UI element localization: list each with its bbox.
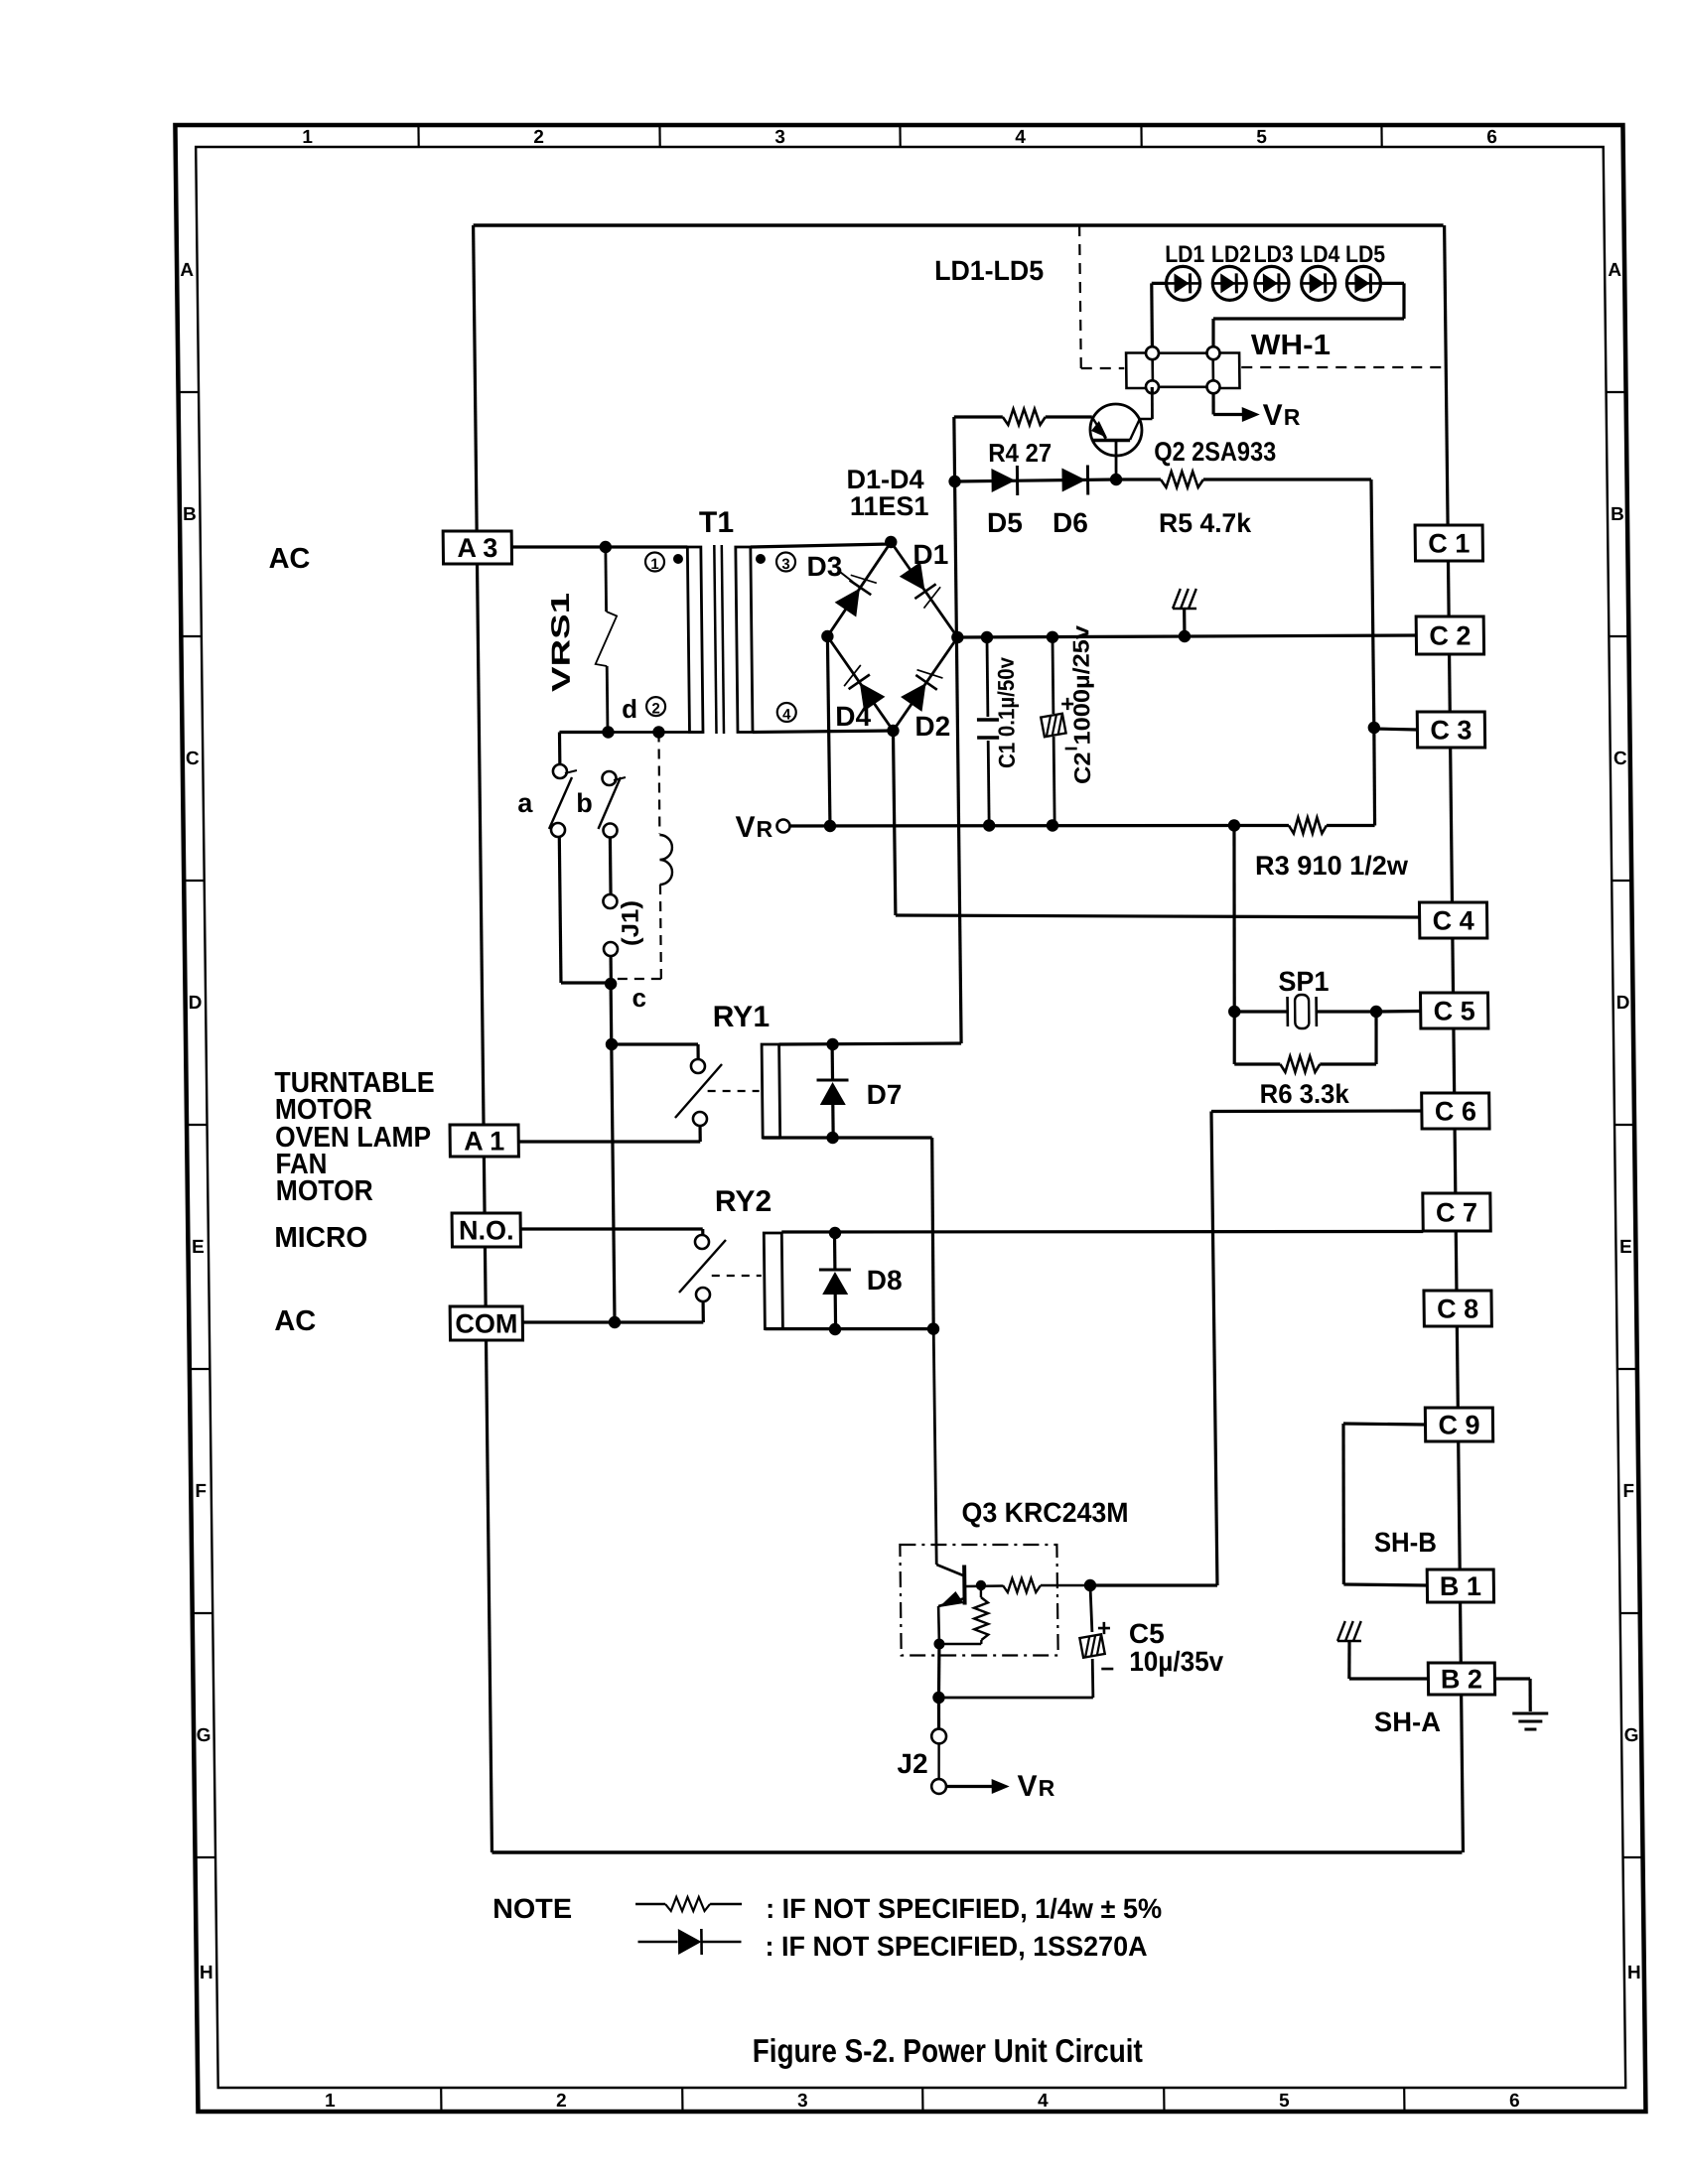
svg-text:F: F bbox=[195, 1481, 207, 1502]
note text diode bbox=[765, 1931, 1147, 1962]
label VR left bbox=[735, 811, 772, 844]
LED LD4 bbox=[1301, 266, 1334, 300]
relay RY1 coil bbox=[762, 1044, 780, 1138]
svg-text:+: + bbox=[1097, 1615, 1111, 1642]
label C5 bbox=[1129, 1618, 1165, 1649]
label AC lower bbox=[274, 1305, 316, 1337]
wire RY2 coil top to C7 bbox=[781, 1230, 1423, 1234]
terminal C5 bbox=[1421, 993, 1488, 1028]
svg-text:A 3: A 3 bbox=[457, 533, 497, 563]
capacitor C1 bbox=[976, 637, 1000, 826]
svg-text:C2 1000µ/25v: C2 1000µ/25v bbox=[1067, 625, 1095, 784]
label LD1 bbox=[1165, 241, 1204, 268]
svg-text:R: R bbox=[1039, 1775, 1055, 1801]
label 10u/35v bbox=[1129, 1646, 1224, 1677]
wire D5 D6 line bbox=[955, 479, 1117, 481]
diode D1 bbox=[900, 561, 945, 610]
node chassis ground stub junction bbox=[1179, 630, 1192, 642]
svg-text:D1-D4: D1-D4 bbox=[846, 465, 923, 494]
label D1 bbox=[912, 539, 948, 570]
wire VR rail bbox=[790, 824, 1234, 828]
resistor R4 bbox=[954, 409, 1092, 425]
terminal A1 bbox=[450, 1125, 518, 1157]
label D7 bbox=[867, 1079, 903, 1110]
wire to RY1 switch bbox=[612, 1044, 698, 1059]
border column tick marks bbox=[418, 125, 1404, 2112]
svg-text:C1 0.1µ/50v: C1 0.1µ/50v bbox=[993, 657, 1020, 768]
circuit right bus wire through terminals bbox=[1445, 225, 1464, 1852]
node Q3 emitter junction bbox=[933, 1639, 944, 1650]
label LD2 bbox=[1211, 241, 1251, 268]
svg-text:: IF NOT SPECIFIED, 1SS270A: : IF NOT SPECIFIED, 1SS270A bbox=[765, 1931, 1147, 1962]
node SP1 left junction bbox=[1228, 1006, 1241, 1018]
wire bridge output up to R4 bbox=[954, 417, 957, 637]
label RY2 bbox=[715, 1185, 772, 1218]
sounder SP1 bbox=[1234, 995, 1376, 1028]
rectifier bridge diamond bbox=[826, 542, 958, 731]
svg-text:D3: D3 bbox=[806, 551, 842, 582]
switch b bbox=[598, 771, 627, 838]
node COM junction bbox=[609, 1316, 622, 1328]
wire Q3 emitter down bbox=[938, 1644, 940, 1698]
svg-text:2: 2 bbox=[556, 2091, 567, 2112]
wire node c down to COM bbox=[611, 984, 615, 1322]
transistor Q3 digital bbox=[933, 1329, 1003, 1644]
svg-text:B: B bbox=[183, 504, 197, 525]
wire VR junction down to SP1 bbox=[1232, 826, 1236, 1013]
svg-text:Q3 KRC243M: Q3 KRC243M bbox=[961, 1497, 1128, 1528]
svg-text:J2: J2 bbox=[897, 1748, 928, 1779]
label LD4 bbox=[1300, 241, 1340, 268]
diode D5 bbox=[991, 466, 1017, 495]
connector WH-1 left housing bbox=[1126, 353, 1153, 389]
node R3 SP1 branch junction bbox=[1228, 819, 1241, 831]
svg-text:6: 6 bbox=[1509, 2091, 1520, 2112]
resistor Q3 base series bbox=[1003, 1578, 1090, 1592]
svg-text:4: 4 bbox=[782, 707, 791, 724]
svg-text:D1: D1 bbox=[912, 539, 948, 570]
dashed link J1 coil to node c bbox=[612, 885, 661, 979]
capacitor C2 electrolytic bbox=[1040, 637, 1066, 826]
label C2 1000u/25v bbox=[1067, 625, 1095, 784]
label C2 minus bbox=[1064, 736, 1078, 762]
terminal C6 bbox=[1422, 1093, 1489, 1129]
label (J1) bbox=[617, 900, 644, 946]
resistor R3 bbox=[1234, 818, 1375, 834]
switch a bbox=[548, 764, 577, 837]
label 11ES1 bbox=[850, 491, 929, 521]
dashed link T1 pin2 to J1 coil bbox=[658, 733, 659, 835]
label D6 bbox=[1052, 507, 1088, 538]
svg-text:R: R bbox=[756, 816, 772, 842]
svg-text:R4 27: R4 27 bbox=[988, 438, 1052, 468]
svg-text:C 2: C 2 bbox=[1429, 621, 1471, 651]
label VR at J2 bbox=[1018, 1770, 1055, 1803]
wire N.O. to RY2 switch bbox=[520, 1229, 703, 1235]
dashed display module boundary bbox=[1079, 225, 1446, 368]
svg-text:G: G bbox=[1624, 1725, 1639, 1746]
wire T1 secondary top to bridge bbox=[751, 544, 892, 547]
label C5 minus bbox=[1100, 1656, 1114, 1683]
svg-text:LD1: LD1 bbox=[1165, 241, 1204, 268]
wire COM to RY2 switch bbox=[522, 1301, 703, 1322]
label D4 bbox=[835, 701, 872, 732]
terminal B2 bbox=[1428, 1663, 1494, 1695]
svg-text:COM: COM bbox=[455, 1309, 517, 1339]
svg-text:D5: D5 bbox=[987, 507, 1023, 538]
svg-text:−: − bbox=[1100, 1656, 1114, 1683]
relay RY1 coil bottom edge wire bbox=[763, 1136, 780, 1139]
border outer frame bbox=[175, 125, 1645, 2112]
svg-text:RY1: RY1 bbox=[713, 1001, 771, 1033]
svg-text:SP1: SP1 bbox=[1278, 966, 1329, 997]
terminal C7 bbox=[1423, 1193, 1490, 1231]
RY2 actuator dashed bbox=[712, 1275, 762, 1277]
circuit boundary bottom wire bbox=[491, 1850, 1462, 1853]
wire A1 to RY1 switch bbox=[518, 1126, 700, 1142]
terminal C4 bbox=[1419, 902, 1486, 938]
node c junction bbox=[605, 978, 618, 990]
svg-text:D: D bbox=[1616, 993, 1630, 1014]
svg-text:H: H bbox=[200, 1963, 213, 1983]
node C2 cap bottom junction bbox=[1047, 819, 1059, 831]
relay RY2 coil bbox=[764, 1233, 782, 1329]
label SP1 bbox=[1278, 966, 1329, 997]
chassis ground near B2 bbox=[1337, 1621, 1362, 1679]
terminal COM bbox=[450, 1306, 522, 1340]
label LD3 bbox=[1253, 241, 1293, 268]
node D7 cathode junction bbox=[826, 1132, 839, 1144]
terminal N.O. bbox=[452, 1213, 520, 1247]
label D2 bbox=[914, 711, 950, 742]
svg-text:3: 3 bbox=[774, 127, 785, 148]
wire T1 secondary bottom to bridge bbox=[753, 731, 894, 733]
svg-text:B 1: B 1 bbox=[1440, 1571, 1481, 1601]
border column numbers bottom 1-6 bbox=[325, 2091, 1520, 2112]
label R6 3.3k bbox=[1260, 1079, 1350, 1109]
svg-text:SH-B: SH-B bbox=[1374, 1527, 1437, 1558]
wire LED chain bbox=[1152, 282, 1184, 285]
svg-text:B 2: B 2 bbox=[1441, 1665, 1482, 1695]
node C1 cap bottom junction bbox=[983, 819, 996, 831]
node C5 bottom junction bbox=[932, 1692, 945, 1704]
J2 VR arrow bbox=[946, 1779, 1010, 1794]
svg-text:10µ/35v: 10µ/35v bbox=[1129, 1646, 1224, 1677]
wire B2 to earth ground bbox=[1494, 1679, 1530, 1711]
svg-text:V: V bbox=[735, 811, 755, 844]
label LD5 bbox=[1345, 241, 1385, 268]
LED LD3 bbox=[1255, 266, 1289, 300]
svg-text:C 9: C 9 bbox=[1438, 1411, 1479, 1440]
label Q3 KRC243M bbox=[961, 1497, 1128, 1528]
svg-text:F: F bbox=[1622, 1481, 1634, 1502]
border row tick marks bbox=[179, 392, 1643, 1857]
svg-text:G: G bbox=[197, 1725, 211, 1746]
border row letters right A-H bbox=[1608, 260, 1642, 1983]
svg-text:C 4: C 4 bbox=[1432, 906, 1473, 936]
label RY1 bbox=[713, 1001, 771, 1033]
svg-text:LD1-LD5: LD1-LD5 bbox=[934, 255, 1044, 286]
label TURNTABLE MOTOR OVEN LAMP FAN MOTOR bbox=[274, 1067, 436, 1207]
node A3-VRS1 junction bbox=[600, 541, 613, 553]
svg-text:R: R bbox=[1284, 404, 1301, 430]
wire bridge minus output down bbox=[827, 636, 830, 826]
terminal C2 bbox=[1416, 616, 1483, 654]
note resistor symbol bbox=[635, 1897, 742, 1911]
wire C9 to B1 loop SH-B bbox=[1341, 1424, 1427, 1585]
svg-text:AC: AC bbox=[268, 543, 310, 575]
circuit boundary top wire bbox=[474, 223, 1444, 226]
T1 pin 4 marker bbox=[777, 703, 796, 723]
relay RY1 switch bbox=[674, 1059, 722, 1126]
svg-text:AC: AC bbox=[274, 1305, 316, 1337]
svg-text:Q2 2SA933: Q2 2SA933 bbox=[1154, 437, 1276, 467]
svg-text:C: C bbox=[1614, 749, 1627, 769]
svg-text:LD3: LD3 bbox=[1253, 241, 1293, 268]
wire J1 to node c bbox=[609, 956, 613, 983]
label NOTE bbox=[492, 1893, 572, 1924]
wire chassis ground to B2 bbox=[1349, 1677, 1429, 1680]
jumper J2 bbox=[930, 1698, 947, 1794]
label R4 27 bbox=[988, 438, 1052, 468]
node C3 junction bbox=[1368, 722, 1381, 734]
LED LD2 bbox=[1212, 266, 1246, 300]
capacitor C5 electrolytic bbox=[937, 1585, 1105, 1698]
svg-text:C5: C5 bbox=[1129, 1618, 1165, 1649]
node RY1 branch junction bbox=[606, 1038, 619, 1050]
svg-text:SH-A: SH-A bbox=[1374, 1706, 1441, 1737]
svg-text:d: d bbox=[622, 694, 637, 724]
chassis ground near C2 wire bbox=[1173, 589, 1197, 636]
jumper J1 terminals bbox=[603, 894, 618, 956]
terminal C8 bbox=[1424, 1291, 1491, 1326]
svg-text:B: B bbox=[1611, 504, 1624, 525]
svg-text:WH-1: WH-1 bbox=[1251, 330, 1331, 361]
svg-text:C 5: C 5 bbox=[1434, 997, 1475, 1026]
diode D3 bbox=[833, 569, 879, 617]
node bridge right vertex bbox=[951, 631, 964, 643]
svg-text:6: 6 bbox=[1486, 127, 1497, 148]
label C2 plus bbox=[1060, 691, 1074, 718]
svg-text:A: A bbox=[180, 260, 194, 281]
svg-text:NOTE: NOTE bbox=[492, 1893, 572, 1924]
transformer T1 secondary winding bbox=[736, 547, 753, 733]
border row letters left A-H bbox=[180, 260, 214, 1983]
wire to C3 terminal bbox=[1374, 729, 1418, 730]
node VR bridge-minus junction bbox=[824, 820, 837, 832]
caption Figure S-2. Power Unit Circuit bbox=[753, 2032, 1143, 2069]
inductor in J1 path bbox=[659, 835, 672, 885]
wire WH-1 to VR arrow bbox=[1213, 393, 1260, 422]
svg-text:C 6: C 6 bbox=[1435, 1097, 1476, 1127]
wire LED chain left to WH-1 bbox=[1150, 283, 1154, 346]
node bridge top vertex bbox=[885, 536, 898, 548]
svg-text:MOTOR: MOTOR bbox=[276, 1175, 373, 1207]
svg-text:11ES1: 11ES1 bbox=[850, 491, 929, 521]
wire RY1 coil bottom to Q3 collector line bbox=[763, 1138, 934, 1328]
svg-text:(J1): (J1) bbox=[617, 900, 644, 946]
label a bbox=[517, 788, 533, 818]
node C2 cap top junction bbox=[1047, 631, 1059, 643]
label D8 bbox=[867, 1265, 903, 1296]
label d node bbox=[622, 694, 637, 724]
relay RY2 switch bbox=[678, 1235, 726, 1301]
svg-text:2: 2 bbox=[533, 127, 544, 148]
wire Q2 collector to WH-1 bbox=[1151, 387, 1154, 393]
border inner frame bbox=[196, 147, 1625, 2088]
svg-text:D8: D8 bbox=[867, 1265, 903, 1296]
svg-text:5: 5 bbox=[1256, 127, 1267, 148]
node T1 pin2 junction bbox=[652, 726, 665, 738]
label c node bbox=[631, 983, 646, 1013]
svg-text:2: 2 bbox=[651, 701, 660, 718]
wire RY2 coil bottom bbox=[765, 1327, 933, 1330]
svg-text:D: D bbox=[189, 993, 203, 1014]
resistor R6 bbox=[1234, 1012, 1377, 1072]
label D1-D4 bbox=[846, 465, 923, 494]
svg-text:D6: D6 bbox=[1052, 507, 1088, 538]
diode D6 bbox=[1061, 466, 1087, 495]
svg-text:R3 910 1/2w: R3 910 1/2w bbox=[1255, 851, 1409, 881]
note diode symbol bbox=[637, 1929, 741, 1955]
label VRS1 bbox=[545, 593, 576, 692]
wire R5 to C3 node bbox=[1371, 479, 1374, 728]
wire bridge bottom vertex to C4 bbox=[893, 731, 1419, 917]
svg-text:R6 3.3k: R6 3.3k bbox=[1260, 1079, 1350, 1109]
transformer T1 core bbox=[714, 545, 724, 734]
svg-text:Figure S-2. Power Unit Circuit: Figure S-2. Power Unit Circuit bbox=[753, 2032, 1143, 2069]
terminal C1 bbox=[1415, 525, 1482, 561]
label SH-B bbox=[1374, 1527, 1437, 1558]
label R3 910 1/2w bbox=[1255, 851, 1409, 881]
svg-text:LD2: LD2 bbox=[1211, 241, 1251, 268]
diode D7 bbox=[816, 1044, 849, 1138]
node Q2 base junction bbox=[1110, 474, 1123, 485]
node SP1 right junction bbox=[1370, 1006, 1383, 1018]
earth ground right of B2 bbox=[1512, 1713, 1548, 1729]
T1 pin 2 marker bbox=[646, 697, 665, 717]
T1 pin 3 marker bbox=[756, 553, 795, 573]
terminal B1 bbox=[1427, 1570, 1493, 1602]
label D3 bbox=[806, 551, 852, 582]
node bridge bottom vertex bbox=[887, 725, 900, 737]
node Q3 internal base junction bbox=[976, 1580, 987, 1590]
label J2 bbox=[897, 1748, 928, 1779]
svg-text:V: V bbox=[1018, 1770, 1038, 1803]
svg-text:4: 4 bbox=[1038, 2091, 1049, 2112]
svg-text:C: C bbox=[186, 749, 200, 769]
wire Q3 emitter to internal resistor bbox=[939, 1643, 981, 1646]
svg-text:D4: D4 bbox=[835, 701, 872, 732]
wire R3 to C3 node bbox=[1373, 728, 1375, 826]
label VR right bbox=[1263, 399, 1301, 432]
label D5 bbox=[987, 507, 1023, 538]
label Q2 2SA933 bbox=[1154, 437, 1276, 467]
svg-text:1: 1 bbox=[302, 127, 313, 148]
svg-text:C 3: C 3 bbox=[1430, 716, 1472, 746]
note text resistor bbox=[766, 1893, 1162, 1924]
dash-dot box Q3 bbox=[900, 1545, 1057, 1656]
svg-text:: IF NOT SPECIFIED, 1/4w ± 5%: : IF NOT SPECIFIED, 1/4w ± 5% bbox=[766, 1893, 1162, 1924]
wire RY1 coil top to bridge output bbox=[774, 637, 961, 1044]
wire A3 to T1 primary bbox=[511, 545, 687, 548]
diode D8 bbox=[818, 1233, 851, 1329]
VR terminal circle bbox=[776, 820, 789, 833]
svg-text:E: E bbox=[1619, 1237, 1632, 1258]
svg-text:c: c bbox=[631, 983, 646, 1013]
node bridge left vertex bbox=[821, 630, 834, 642]
T1 pin 1 marker bbox=[645, 553, 683, 573]
svg-text:RY2: RY2 bbox=[715, 1185, 772, 1218]
svg-text:4: 4 bbox=[1015, 127, 1026, 148]
wire d to switch a bbox=[559, 733, 608, 765]
LED LD1 bbox=[1166, 266, 1199, 300]
wire C6 to Q3 base line bbox=[1211, 1111, 1427, 1585]
svg-text:LD4: LD4 bbox=[1300, 241, 1340, 268]
terminal C3 bbox=[1417, 712, 1484, 748]
wire Q3 base line bbox=[1090, 1583, 1217, 1586]
diode D4 bbox=[839, 664, 885, 713]
label R5 4.7k bbox=[1159, 508, 1252, 538]
node D8 anode junction bbox=[829, 1227, 842, 1239]
svg-text:3: 3 bbox=[797, 2091, 808, 2112]
svg-text:LD5: LD5 bbox=[1345, 241, 1385, 268]
svg-text:E: E bbox=[192, 1237, 205, 1258]
label C1 0.1u/50v bbox=[993, 657, 1020, 768]
svg-text:b: b bbox=[576, 788, 593, 818]
svg-text:A 1: A 1 bbox=[464, 1127, 504, 1157]
svg-text:A: A bbox=[1608, 260, 1621, 281]
wire LED chain right return bbox=[1212, 283, 1404, 346]
label T1 bbox=[699, 506, 734, 539]
wire SP1 to C5 terminal bbox=[1376, 1010, 1421, 1014]
connector WH-1 pins bbox=[1146, 346, 1220, 393]
label SH-A bbox=[1374, 1706, 1441, 1737]
label LD1-LD5 bbox=[934, 255, 1044, 286]
circuit boundary left bus wire bbox=[474, 225, 492, 1852]
terminal C9 bbox=[1425, 1408, 1492, 1441]
node Q3 collector junction bbox=[927, 1322, 940, 1334]
label C5 plus bbox=[1097, 1615, 1111, 1642]
wire WH-1 bottom pin row bbox=[1152, 385, 1213, 388]
node d junction bbox=[602, 726, 615, 738]
svg-text:C 8: C 8 bbox=[1437, 1295, 1478, 1324]
node R4 D5 junction bbox=[948, 476, 961, 487]
wire switch a to node c bbox=[559, 837, 611, 983]
wire switch b to jumper J1 bbox=[609, 838, 613, 895]
transformer T1 primary winding bbox=[557, 547, 703, 733]
label WH-1 bbox=[1251, 330, 1331, 361]
svg-text:a: a bbox=[517, 788, 533, 818]
resistor Q3 base-emitter internal bbox=[974, 1585, 989, 1644]
RY1 actuator dashed bbox=[708, 1090, 760, 1092]
svg-text:MICRO: MICRO bbox=[274, 1222, 367, 1254]
svg-text:R5 4.7k: R5 4.7k bbox=[1159, 508, 1252, 538]
svg-text:D7: D7 bbox=[867, 1079, 903, 1110]
svg-text:C 1: C 1 bbox=[1428, 529, 1470, 559]
svg-text:T1: T1 bbox=[699, 506, 734, 539]
transistor Q2 bbox=[1089, 387, 1153, 479]
node D8 cathode junction bbox=[829, 1323, 842, 1335]
label b bbox=[576, 788, 593, 818]
svg-text:VRS1: VRS1 bbox=[545, 593, 576, 692]
svg-text:N.O.: N.O. bbox=[459, 1216, 514, 1246]
wire WH-1 top pin row bbox=[1152, 351, 1213, 354]
connector WH-1 right housing bbox=[1213, 353, 1240, 389]
svg-text:1: 1 bbox=[325, 2091, 336, 2112]
varistor VRS1 bbox=[594, 547, 618, 733]
wire bridge plus output to C2 terminal bbox=[957, 635, 1416, 637]
